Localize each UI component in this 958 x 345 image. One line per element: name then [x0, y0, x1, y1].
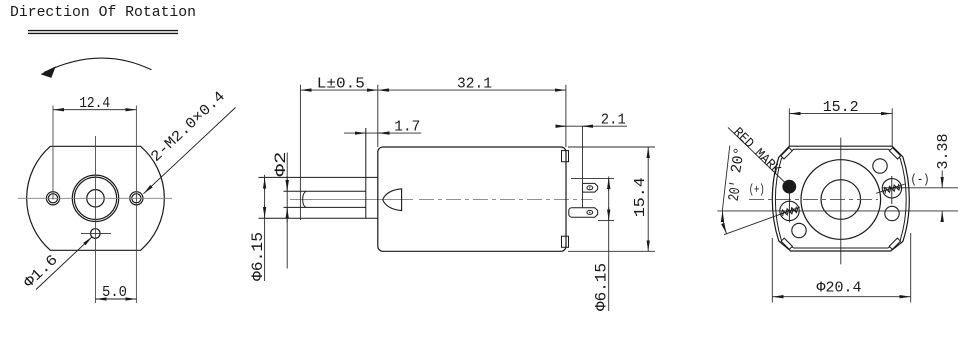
svg-text:20': 20'	[726, 180, 746, 202]
svg-text:2.1: 2.1	[601, 112, 626, 129]
svg-text:15.4: 15.4	[632, 177, 649, 217]
svg-text:20°: 20°	[728, 146, 749, 174]
svg-text:12.4: 12.4	[79, 95, 110, 112]
svg-text:1.7: 1.7	[394, 118, 420, 135]
svg-text:3.38: 3.38	[935, 134, 952, 170]
svg-text:(+): (+)	[749, 182, 765, 197]
svg-text:Direction Of Rotation: Direction Of Rotation	[10, 4, 196, 21]
svg-text:15.2: 15.2	[823, 99, 859, 116]
svg-text:(-): (-)	[911, 172, 930, 187]
svg-text:5.0: 5.0	[102, 284, 127, 301]
svg-text:2-M2.0×0.4: 2-M2.0×0.4	[148, 88, 229, 165]
svg-text:Φ6.15: Φ6.15	[593, 263, 611, 311]
svg-text:32.1: 32.1	[457, 75, 492, 92]
svg-text:Φ2: Φ2	[272, 152, 290, 177]
svg-text:L±0.5: L±0.5	[317, 75, 365, 92]
svg-text:Φ6.15: Φ6.15	[249, 232, 267, 281]
svg-text:Φ20.4: Φ20.4	[817, 280, 862, 297]
